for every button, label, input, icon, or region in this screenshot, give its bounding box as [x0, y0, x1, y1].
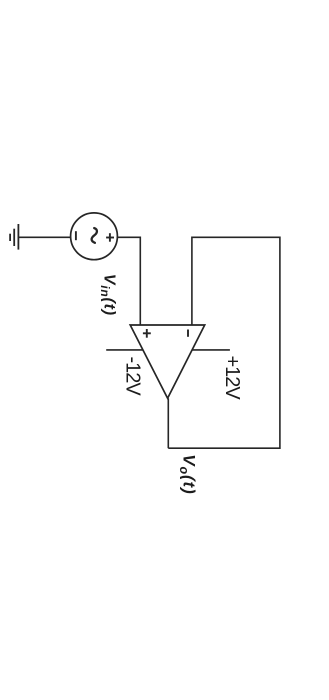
wire ground to source: [18, 236, 70, 238]
op-amp minus label: [187, 330, 189, 337]
ground: [10, 224, 18, 250]
wire source to op-amp plus input: [117, 237, 140, 325]
AC source Vin circle: [71, 213, 118, 260]
source plus sign: [106, 233, 114, 242]
source sine symbol: [92, 228, 97, 243]
negative supply pin: [106, 349, 143, 351]
svg-text:-12V: -12V: [122, 357, 144, 397]
source minus sign: [75, 231, 77, 240]
output wire from apex: [167, 398, 169, 448]
positive supply pin: [192, 349, 230, 351]
feedback wire: minus input up, right, down, to output: [168, 237, 280, 448]
svg-text:Vin(t): Vin(t): [98, 274, 118, 316]
svg-text:Vo(t): Vo(t): [177, 454, 199, 494]
svg-text:+12V: +12V: [221, 356, 243, 401]
op-amp plus label: [143, 329, 151, 338]
op-amp U1 triangle: [130, 325, 205, 398]
